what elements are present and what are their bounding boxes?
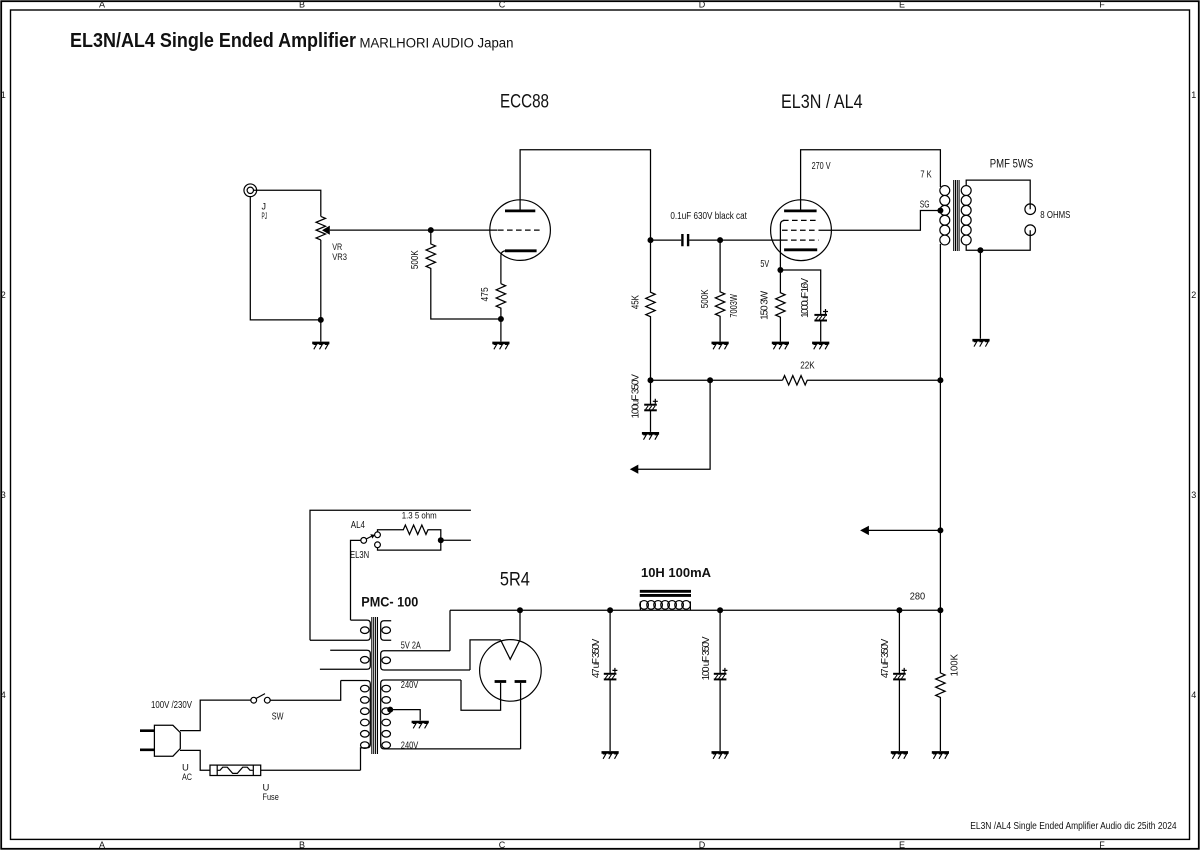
- node 22K right: [937, 377, 943, 383]
- ground: [812, 343, 829, 349]
- wire secondary bottom: [966, 230, 1030, 250]
- svg-text:SW: SW: [272, 710, 284, 722]
- wire 240V top to 5R4 left plate: [461, 680, 501, 710]
- capacitor 100uF 350V: [650, 380, 652, 404]
- ground: [602, 752, 619, 758]
- svg-text:AL4: AL4: [351, 519, 365, 531]
- ground: [312, 343, 329, 349]
- svg-text:8 OHMS: 8 OHMS: [1040, 209, 1070, 221]
- node pot bottom: [318, 317, 324, 323]
- svg-text:2: 2: [1191, 290, 1196, 300]
- wire ECC88 cathode lead: [501, 251, 506, 284]
- label U AC: [182, 763, 192, 784]
- capacitor 1000uF 16V: [814, 309, 828, 321]
- svg-text:500K: 500K: [410, 250, 421, 269]
- EL3N grid g2 dashes: [782, 229, 819, 231]
- 5R4 envelope: [480, 640, 542, 702]
- node EL3N cathode: [777, 267, 783, 273]
- svg-text:ECC88: ECC88: [500, 91, 549, 112]
- wire EL3N anode to 270V rail: [801, 150, 941, 212]
- svg-text:1.3 5 ohm: 1.3 5 ohm: [402, 511, 437, 522]
- svg-text:3: 3: [1191, 490, 1196, 500]
- svg-text:100V /230V: 100V /230V: [151, 699, 192, 711]
- 5R4 filament V: [501, 640, 520, 659]
- svg-text:475: 475: [480, 287, 491, 301]
- svg-text:EL3N /AL4 Single Ended Amplifi: EL3N /AL4 Single Ended Amplifier Audio d…: [970, 821, 1177, 832]
- resistor 1.3/5 ohm: [378, 525, 441, 540]
- svg-text:47 uF 350V: 47 uF 350V: [880, 638, 891, 678]
- svg-text:45K: 45K: [631, 295, 642, 309]
- node selector out: [438, 537, 444, 543]
- svg-text:SG: SG: [920, 199, 930, 211]
- svg-text:100 uF 350V: 100 uF 350V: [701, 636, 712, 680]
- wire arrow branch: [867, 529, 940, 531]
- svg-text:PMF 5WS: PMF 5WS: [990, 158, 1034, 170]
- svg-text:4: 4: [1191, 690, 1196, 700]
- node secondary ground tap: [977, 247, 983, 253]
- AC plug body: [154, 725, 180, 756]
- fuse U: [210, 765, 261, 775]
- wire switch to primary: [270, 681, 341, 701]
- svg-text:5V: 5V: [760, 258, 769, 270]
- svg-text:1: 1: [1191, 90, 1196, 100]
- svg-text:7 K: 7 K: [920, 169, 931, 181]
- terminal 8 ohms top: [1025, 204, 1036, 215]
- capacitor 47uF 350V third: [898, 610, 900, 673]
- winding heater stub left: [320, 650, 370, 669]
- ground: [932, 752, 949, 758]
- svg-text:3: 3: [1, 490, 6, 500]
- ground: [492, 343, 509, 349]
- svg-text:E: E: [899, 840, 905, 850]
- svg-text:MARLHORI AUDIO Japan: MARLHORI AUDIO Japan: [360, 36, 514, 51]
- svg-text:5R4: 5R4: [500, 569, 530, 590]
- pot wiper arrow: [330, 229, 431, 231]
- wire center tap to ground: [390, 710, 420, 721]
- wire feedback arrow: [638, 380, 710, 469]
- node filament B+: [517, 607, 523, 613]
- winding right stub: [381, 621, 392, 640]
- svg-text:AC: AC: [182, 772, 192, 783]
- svg-text:4: 4: [1, 690, 6, 700]
- ground: [772, 343, 789, 349]
- ground: [891, 752, 908, 758]
- svg-text:B: B: [299, 0, 305, 10]
- arrow head left: [630, 465, 639, 474]
- svg-text:EL3N / AL4: EL3N / AL4: [781, 92, 863, 113]
- svg-text:270 V: 270 V: [812, 160, 831, 172]
- svg-text:2: 2: [1, 290, 6, 300]
- 5R4 left plate: [495, 680, 507, 683]
- wire pot bottom: [320, 240, 322, 320]
- wire plug top to switch: [180, 700, 251, 731]
- winding primary 100/230V: [341, 681, 371, 771]
- wire B+ rail: [450, 609, 940, 611]
- arrow head left: [860, 526, 869, 535]
- svg-text:1000uF 16V: 1000uF 16V: [800, 278, 811, 318]
- wire suppressor-cathode tie: [780, 220, 784, 270]
- wire node to ECC88 grid: [431, 229, 498, 231]
- input jack J PJ: [244, 184, 257, 197]
- switch lever: [366, 536, 371, 539]
- wire to EL3N grid: [720, 239, 782, 241]
- wire node to ground: [320, 320, 322, 342]
- svg-text:C: C: [499, 840, 506, 850]
- node HV center tap: [387, 707, 393, 713]
- resistor 100K bleeder: [936, 610, 945, 751]
- node cap / 500K / grid: [717, 237, 723, 243]
- svg-text:F: F: [1099, 840, 1105, 850]
- svg-text:PMC- 100: PMC- 100: [361, 595, 418, 610]
- svg-text:Fuse: Fuse: [263, 792, 279, 803]
- ground: [412, 722, 429, 728]
- svg-text:10H 100mA: 10H 100mA: [641, 565, 712, 580]
- node SG tap: [937, 208, 943, 214]
- wire cap to ground: [820, 321, 822, 342]
- svg-text:5V 2A: 5V 2A: [401, 639, 421, 651]
- EL3N anode bar: [784, 209, 817, 212]
- terminal 8 ohms bottom: [1025, 225, 1036, 236]
- switch contact AL4: [375, 532, 381, 538]
- capacitor 0.1uF 630V: [651, 234, 721, 246]
- node cathode ground: [498, 316, 504, 322]
- svg-text:100K: 100K: [950, 654, 961, 677]
- svg-text:47 uF 350V: 47 uF 350V: [591, 638, 602, 678]
- wire selector out: [441, 539, 471, 541]
- wire fuse to primary bottom: [261, 769, 361, 771]
- ground: [712, 752, 729, 758]
- resistor 45K: [646, 240, 655, 380]
- wire rail left: [651, 379, 783, 381]
- EL3N cathode bar: [784, 248, 817, 251]
- node cap1: [607, 607, 613, 613]
- svg-text:C: C: [499, 0, 506, 10]
- OPT secondary winding: [961, 186, 971, 245]
- PMC core: [372, 617, 378, 754]
- label VR VR3: [332, 242, 347, 263]
- node 22K mid: [707, 377, 713, 383]
- capacitor 47uF 350V first: [609, 610, 611, 673]
- wire common to heater winding: [351, 540, 361, 620]
- OPT core: [954, 180, 959, 251]
- svg-text:0.1uF 630V black cat: 0.1uF 630V black cat: [670, 210, 747, 222]
- ECC88 cathode bar: [505, 249, 537, 252]
- ground: [642, 433, 659, 439]
- ground: [712, 343, 729, 349]
- label U Fuse: [263, 783, 279, 804]
- svg-text:7003W: 7003W: [729, 294, 740, 318]
- capacitor 100uF 350V second: [719, 610, 721, 673]
- node cap3: [896, 607, 902, 613]
- wire 5V winding to filament / B+: [449, 610, 451, 651]
- wire secondary top to terminal: [966, 180, 1030, 209]
- winding heater AL4/EL3N left: [310, 620, 370, 640]
- svg-text:A: A: [99, 0, 105, 10]
- EL3N grid g1 dashes: [782, 239, 819, 241]
- label J PJ: [262, 202, 268, 222]
- switch SW: [251, 694, 270, 704]
- svg-text:E: E: [899, 0, 905, 10]
- resistor 500K grid: [426, 230, 501, 319]
- svg-text:J: J: [262, 202, 267, 212]
- wire plug bottom to fuse: [180, 750, 210, 770]
- wire OPT primary bottom down rail: [939, 244, 941, 610]
- svg-text:500K: 500K: [700, 289, 711, 308]
- wire to ground: [500, 319, 502, 342]
- wire jack ground leg: [250, 197, 320, 320]
- svg-text:1: 1: [1, 90, 6, 100]
- resistor 150 3W: [776, 270, 785, 342]
- node grid wire: [428, 227, 434, 233]
- node anode / 45K / cap: [648, 237, 654, 243]
- AC plug prongs: [140, 731, 154, 750]
- svg-text:EL3N/AL4 Single Ended Amplifi: EL3N/AL4 Single Ended Amplifier: [70, 30, 356, 52]
- wire cap to ground: [650, 411, 652, 432]
- node 280: [937, 607, 943, 613]
- svg-text:PJ: PJ: [262, 211, 268, 221]
- wire screen grid to SG tap: [819, 211, 940, 231]
- node B+ branch arrow: [937, 527, 943, 533]
- OPT primary winding: [940, 186, 950, 245]
- svg-text:VR3: VR3: [332, 252, 347, 263]
- svg-text:D: D: [699, 840, 706, 850]
- wire jack to pot top: [254, 190, 321, 216]
- svg-text:280: 280: [910, 591, 926, 603]
- ground: [972, 340, 989, 346]
- wire to ground: [979, 250, 981, 338]
- EL3N grid g3 dashes: [783, 219, 819, 221]
- winding 240V secondary: [381, 680, 521, 749]
- svg-text:240V: 240V: [401, 679, 419, 691]
- node 22K left: [648, 377, 654, 383]
- resistor 500K 7003W: [715, 240, 724, 342]
- svg-text:240V: 240V: [401, 739, 419, 751]
- node cap2: [717, 607, 723, 613]
- tube ECC88 envelope: [490, 200, 551, 261]
- switch contact EL3N: [375, 542, 381, 548]
- wire filament right to B+ rail: [519, 610, 521, 640]
- svg-text:D: D: [699, 0, 706, 10]
- resistor 475: [496, 284, 505, 319]
- wire EL3N contact: [378, 540, 441, 550]
- potentiometer VR VR3: [316, 216, 325, 240]
- svg-text:150 3W: 150 3W: [760, 290, 771, 320]
- ECC88 anode bar: [505, 209, 535, 212]
- wire to bypass cap: [780, 270, 820, 315]
- wire 240V bottom to 5R4 right plate: [520, 683, 522, 749]
- winding 5V 2A: [381, 651, 470, 670]
- wire filament left leg: [470, 640, 501, 670]
- wire ECC88 anode to coupling node: [520, 150, 650, 240]
- 5R4 right plate: [515, 680, 527, 683]
- switch common pole: [361, 538, 367, 544]
- svg-text:100uF 350V: 100uF 350V: [631, 374, 642, 419]
- ECC88 grid dashes: [498, 229, 543, 231]
- svg-text:EL3N: EL3N: [350, 549, 369, 561]
- choke 10H 100mA: [640, 591, 691, 610]
- tube EL3N envelope: [771, 200, 832, 261]
- svg-text:F: F: [1099, 0, 1105, 10]
- svg-text:A: A: [99, 840, 105, 850]
- svg-text:B: B: [299, 840, 305, 850]
- svg-text:22K: 22K: [800, 359, 815, 371]
- resistor 22K: [783, 376, 941, 385]
- wire filament selector top line: [310, 510, 471, 640]
